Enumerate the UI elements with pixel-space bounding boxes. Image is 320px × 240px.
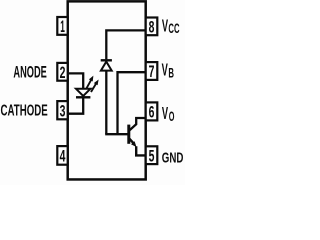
svg-text:ANODE: ANODE (13, 62, 46, 81)
pin 4 box (57, 146, 67, 166)
photodiode cathode bar (101, 59, 112, 61)
svg-text:5: 5 (149, 146, 155, 165)
pin 6 box (146, 102, 158, 121)
light arrow A (87, 76, 94, 89)
wire pin 7 (VB) to base node (118, 72, 147, 134)
svg-text:CATHODE: CATHODE (1, 103, 48, 120)
svg-text:CC: CC (168, 21, 179, 36)
VO label (162, 103, 175, 124)
svg-text:GND: GND (162, 151, 184, 167)
emitter arrow (131, 141, 137, 147)
svg-text:V: V (162, 15, 168, 35)
emitter wire to pin 5 (GND) (129, 139, 146, 156)
svg-text:V: V (162, 103, 168, 123)
wire photodiode cathode to pin 8 (VCC) (106, 30, 146, 59)
pin 2 box (57, 63, 67, 82)
base node wire to transistor base (105, 133, 128, 135)
svg-text:V: V (162, 60, 168, 80)
svg-text:2: 2 (60, 63, 66, 82)
collector wire to pin 6 (VO) (129, 118, 146, 130)
svg-text:3: 3 (60, 102, 66, 121)
wire photodiode anode down to base node (105, 71, 107, 135)
svg-text:1: 1 (60, 17, 65, 36)
light arrow B (91, 80, 99, 93)
pin 3 box (57, 101, 67, 120)
pin 7 box (146, 62, 158, 81)
photodiode triangle (101, 62, 112, 71)
pin 1 box (57, 17, 67, 36)
svg-text:4: 4 (60, 147, 66, 166)
transistor Q1 base bar (127, 125, 130, 144)
IC body outline (68, 1, 146, 179)
svg-text:6: 6 (149, 103, 155, 122)
LED emitter diode triangle (76, 89, 90, 96)
svg-text:8: 8 (149, 18, 155, 37)
pin 5 box (146, 146, 158, 165)
VB label (162, 60, 175, 81)
LED cathode bar (76, 96, 90, 98)
svg-text:7: 7 (149, 62, 155, 81)
svg-text:O: O (169, 109, 175, 124)
wire LED cathode to pin3 (69, 98, 83, 113)
pin 8 box (146, 18, 158, 37)
wire pin2 to LED anode (69, 73, 83, 88)
VCC label (162, 15, 180, 36)
svg-text:B: B (168, 66, 174, 81)
